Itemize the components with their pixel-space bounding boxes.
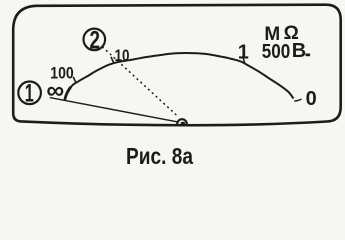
svg-text:1: 1 (25, 80, 34, 108)
tick 100 (73, 77, 76, 83)
scale arc (65, 53, 294, 101)
callout circle 1 (18, 82, 41, 105)
arc end thick segment (infinity end) (65, 87, 71, 100)
DC dash after V (306, 54, 311, 57)
dashed needle position 2 (102, 47, 177, 116)
svg-text:1: 1 (238, 41, 249, 63)
svg-text:2: 2 (90, 27, 101, 55)
needle (position 1, at infinity) (50, 98, 178, 122)
svg-text:В: В (292, 40, 306, 62)
tick 10 (111, 57, 114, 63)
pivot hinge dot (181, 122, 186, 125)
arc end hook right (zero end) (294, 99, 301, 101)
svg-text:500: 500 (262, 41, 291, 63)
svg-text:10: 10 (115, 46, 130, 65)
svg-text:0: 0 (306, 88, 317, 110)
svg-text:Рис. 8а: Рис. 8а (126, 143, 194, 169)
svg-text:100: 100 (50, 64, 74, 82)
callout circle 2 (84, 29, 106, 51)
tick 1 (243, 58, 245, 64)
pivot bump (177, 119, 187, 124)
meter face frame (13, 5, 341, 126)
